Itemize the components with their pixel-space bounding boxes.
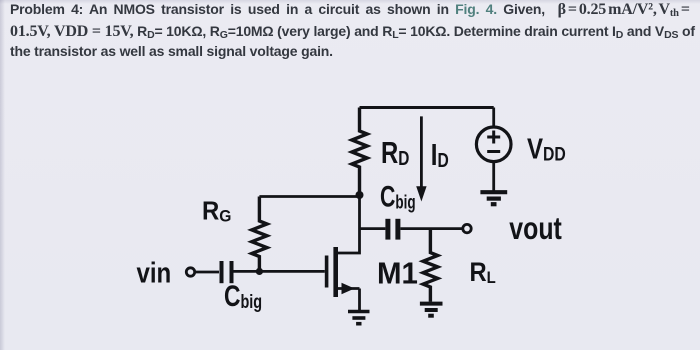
label vin bbox=[137, 256, 172, 289]
resistor RG bbox=[252, 197, 267, 272]
label VDD bbox=[527, 132, 566, 165]
terminal vout bbox=[463, 224, 471, 232]
ground (below M1 source) bbox=[348, 312, 370, 324]
ground (below RL) bbox=[420, 304, 443, 316]
label Cbig (input) bbox=[224, 279, 262, 313]
resistor RD bbox=[352, 108, 367, 196]
wire vout tap bbox=[360, 227, 386, 230]
svg-text:vout: vout bbox=[509, 211, 562, 247]
transistor M1 bbox=[327, 247, 360, 310]
problem statement line 3 bbox=[10, 43, 333, 59]
label M1 bbox=[377, 257, 418, 291]
svg-text:Cbig: Cbig bbox=[224, 279, 262, 313]
svg-text:RG: RG bbox=[202, 196, 231, 225]
wire Cbig to gate bbox=[234, 270, 325, 273]
svg-text:RD: RD bbox=[381, 135, 409, 170]
label Cbig (output) bbox=[380, 179, 416, 214]
node gate junction bbox=[256, 268, 263, 275]
svg-text:RL: RL bbox=[470, 257, 496, 287]
problem statement line 2 bbox=[10, 23, 695, 41]
svg-text:Cbig: Cbig bbox=[380, 179, 416, 214]
label RG bbox=[202, 196, 231, 225]
wire feedback (RG top to drain node) bbox=[259, 195, 359, 198]
source VDD bbox=[476, 108, 511, 191]
label RD bbox=[381, 135, 409, 170]
resistor RL bbox=[423, 229, 438, 302]
svg-text:ID: ID bbox=[431, 137, 449, 172]
label vout bbox=[509, 211, 562, 247]
wire drain vertical (node to M1 drain) bbox=[338, 195, 360, 253]
svg-text:M1: M1 bbox=[377, 257, 418, 291]
wire top rail (RD top to VDD top) bbox=[360, 106, 494, 109]
current arrow ID bbox=[416, 116, 426, 201]
label RL bbox=[470, 257, 496, 287]
label ID bbox=[431, 137, 449, 172]
capacitor Cbig (output coupling) bbox=[388, 219, 398, 240]
problem statement line 1 bbox=[10, 1, 690, 19]
svg-text:VDD: VDD bbox=[527, 132, 566, 165]
wire cap to vout bbox=[401, 227, 463, 230]
node drain junction bbox=[356, 191, 364, 199]
wire vin to Cbig bbox=[195, 271, 219, 274]
svg-text:vin: vin bbox=[137, 256, 172, 289]
terminal vin bbox=[186, 268, 194, 276]
capacitor Cbig (input coupling) bbox=[222, 261, 232, 283]
ground (below VDD) bbox=[480, 192, 507, 204]
